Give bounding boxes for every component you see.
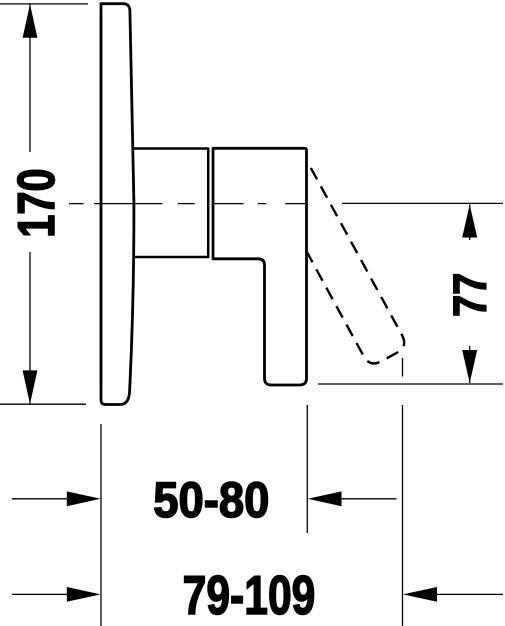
dimension 50-80 right arrow [340, 498, 397, 500]
dimension line 170 [29, 4, 31, 404]
svg-text:170: 170 [7, 168, 66, 237]
escutcheon plate (wall rosette, side view) [101, 4, 134, 405]
valve body (cartridge housing) [133, 149, 209, 258]
svg-text:79-109: 79-109 [183, 565, 316, 626]
svg-text:77: 77 [445, 273, 497, 317]
extension line open-lever tip (below, for 79-109) [402, 358, 404, 626]
dimension 79-109 right arrow [436, 593, 503, 595]
extension line bottom (plate bottom, for 170) [0, 403, 86, 405]
extension line top (plate top, for 170) [0, 3, 88, 5]
extension line lever bottom right (for 77) [318, 383, 503, 385]
svg-text:50-80: 50-80 [153, 473, 269, 529]
extension line wall (left, below) [100, 424, 102, 626]
lever handle (closed position, solid) [213, 148, 307, 385]
extension line axis right (for 77) [342, 202, 503, 204]
dimension line 77 [469, 205, 471, 384]
dimension 50-80 left arrow [12, 498, 70, 500]
extension line lever edge (below, for 50-80) [306, 405, 308, 533]
center line (valve axis, dash-dot) [69, 203, 307, 205]
dashed lever (open position) [268, 160, 408, 367]
dimension 79-109 left arrow [12, 593, 70, 595]
